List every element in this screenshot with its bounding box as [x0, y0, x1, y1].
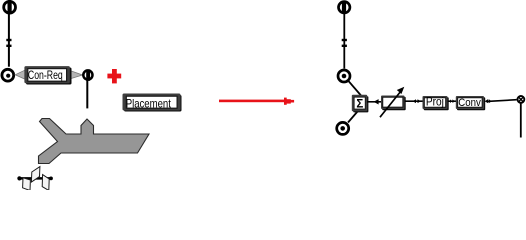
svg-text:Placement: Placement	[126, 97, 172, 111]
svg-text:Σ: Σ	[356, 98, 363, 110]
svg-text:Conv: Conv	[458, 97, 481, 109]
svg-text:Con-Req: Con-Req	[28, 70, 63, 82]
svg-text:Proj: Proj	[426, 95, 444, 109]
